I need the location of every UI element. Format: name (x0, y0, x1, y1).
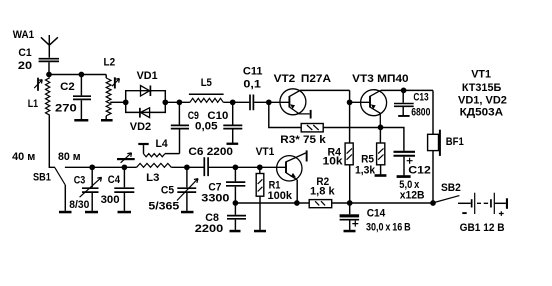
resistor R5 (377, 127, 385, 174)
ground C13 (398, 115, 409, 117)
svg-text:VT1: VT1 (256, 146, 275, 158)
inductor L2 (106, 75, 111, 120)
resistor R3 (269, 102, 323, 132)
wire mid rail left (65, 166, 137, 168)
inductor L3 (137, 163, 172, 167)
wire L5 to C11 (223, 101, 249, 103)
svg-text:300: 300 (101, 194, 120, 206)
node C13 top (401, 88, 407, 94)
svg-text:VD2: VD2 (130, 121, 151, 133)
node VT3 base junction (347, 99, 353, 105)
capacitor C4 (114, 167, 134, 211)
capacitor C14 (340, 203, 360, 230)
wire C11 to VT2 base (254, 101, 289, 103)
node BF1 bottom (430, 200, 436, 206)
battery plus sign (499, 211, 504, 216)
svg-text:C3: C3 (74, 174, 86, 186)
ground C12 (397, 175, 411, 178)
svg-text:30,0 х 16 В: 30,0 х 16 В (366, 221, 411, 233)
wire C9 to L4 (179, 129, 181, 153)
wire bridge to L5 (165, 101, 190, 103)
node C5 top (184, 164, 190, 170)
svg-text:100k: 100k (268, 190, 293, 202)
ground C8 (230, 230, 241, 233)
svg-text:C12: C12 (408, 165, 431, 177)
svg-text:R3* 75 k: R3* 75 k (280, 134, 326, 146)
wire VT3 collector rail (381, 89, 433, 91)
transistor VT1 (277, 153, 306, 203)
svg-text:C6 2200: C6 2200 (188, 146, 233, 158)
wire VT3 base (350, 101, 370, 103)
ground C10 (227, 143, 239, 145)
capacitor C7 (226, 167, 245, 203)
svg-text:C2: C2 (60, 81, 75, 93)
svg-text:L3: L3 (146, 172, 159, 184)
inductor L5 (189, 94, 224, 102)
wire top rail L1-C2-L2 (49, 74, 106, 76)
svg-text:10k: 10k (323, 156, 344, 168)
svg-text:C11: C11 (243, 66, 263, 78)
capacitor C9 (171, 102, 189, 128)
svg-text:L5: L5 (201, 77, 212, 89)
svg-text:WA1: WA1 (13, 29, 34, 41)
capacitor C3 (80, 167, 102, 211)
capacitor C8 (227, 203, 246, 230)
ground C14 (344, 230, 356, 233)
ground SB1 (59, 211, 72, 214)
capacitor C2 (73, 75, 91, 120)
svg-text:GB1 12 В: GB1 12 В (460, 222, 505, 234)
inductor L4 (143, 145, 179, 157)
ground VT1 collector (306, 150, 308, 161)
node C14 top (347, 200, 353, 206)
wire C1 to node (48, 62, 50, 74)
wire L3 to C6 (171, 166, 203, 168)
svg-text:L4: L4 (156, 138, 169, 150)
capacitor C1 (39, 59, 59, 62)
svg-text:VD1, VD2: VD1, VD2 (458, 94, 507, 106)
svg-text:3300: 3300 (201, 192, 229, 204)
node C8 top (233, 200, 239, 206)
svg-text:C1: C1 (18, 47, 31, 59)
node C4 top (122, 164, 128, 170)
svg-text:VT3 МП40: VT3 МП40 (352, 73, 408, 85)
svg-text:1,3k: 1,3k (355, 165, 376, 177)
antenna WA1 (41, 35, 58, 58)
svg-text:6800: 6800 (411, 107, 430, 119)
wire L1 to SB1 (49, 115, 55, 167)
node A2 (79, 72, 85, 78)
resistor R4 (345, 143, 353, 203)
ground C4 (118, 211, 132, 214)
capacitor C12 (394, 152, 416, 176)
node bridge left (123, 99, 129, 105)
svg-text:0,05: 0,05 (195, 121, 218, 133)
svg-text:2200: 2200 (195, 223, 223, 235)
svg-text:0,1: 0,1 (243, 79, 261, 91)
switch SB1 (55, 168, 66, 211)
svg-text:R5: R5 (361, 153, 374, 165)
node C9 top (177, 99, 183, 105)
svg-text:C4: C4 (108, 174, 121, 186)
transistor VT2 (280, 89, 310, 115)
battery minus sign (462, 212, 466, 214)
svg-text:КД503А: КД503А (460, 107, 504, 119)
svg-text:BF1: BF1 (446, 136, 464, 148)
svg-text:SB1: SB1 (33, 172, 51, 184)
svg-text:270: 270 (55, 103, 77, 115)
node C3 top (89, 164, 95, 170)
svg-text:VT2 П27А: VT2 П27А (274, 73, 331, 85)
node C10 top (230, 99, 236, 105)
ground VT2 emitter (310, 110, 312, 119)
capacitor C13 (394, 90, 414, 115)
node A1 (46, 72, 52, 78)
svg-text:C5: C5 (161, 184, 174, 196)
capacitor C6 (204, 157, 208, 176)
ground L4 (138, 143, 148, 145)
resistor R1 (256, 167, 264, 230)
battery GB1 (471, 193, 508, 214)
svg-text:C13: C13 (413, 91, 428, 103)
svg-text:80 м: 80 м (58, 151, 81, 163)
capacitor C5 (177, 167, 198, 211)
svg-text:КТ315Б: КТ315Б (462, 82, 501, 94)
diode VD2 (140, 108, 150, 118)
svg-text:х12В: х12В (400, 189, 425, 201)
capacitor C10 (223, 102, 242, 143)
capacitor C11 (250, 95, 253, 111)
wire VT2 collector rail (300, 89, 350, 91)
node VT1 emitter (294, 200, 300, 206)
svg-text:SB2: SB2 (441, 182, 461, 194)
ground C2 (74, 119, 88, 122)
ground C3 (85, 211, 98, 214)
L2 adjust arrow (112, 77, 119, 88)
svg-text:L2: L2 (104, 57, 116, 69)
L1 adjust arrow (34, 78, 42, 91)
bottom rail (235, 202, 433, 204)
switch SB2 (434, 196, 471, 204)
svg-text:VT1: VT1 (471, 69, 491, 81)
inductor L1 (46, 78, 50, 116)
headphone BF1 (428, 90, 441, 203)
ground L2 (101, 119, 113, 122)
ground C5 (181, 211, 194, 214)
wire R3 to VT3 emitter node and C12 (323, 128, 404, 151)
svg-text:VD1: VD1 (137, 70, 158, 82)
svg-text:20: 20 (18, 60, 32, 72)
svg-text:L1: L1 (28, 98, 38, 110)
ground R1 (254, 230, 266, 233)
node VT2 base (266, 99, 272, 105)
diode VD1 (141, 86, 151, 97)
ground R5 (375, 174, 387, 177)
node VT3 emitter (378, 125, 384, 131)
svg-text:8/30: 8/30 (69, 199, 89, 211)
transistor VT3 (361, 90, 387, 127)
node R1 top (257, 164, 263, 170)
diode bridge frame (126, 91, 166, 113)
wire C6 to VT1 base (209, 166, 286, 168)
trimmer arrow near L3 (117, 153, 135, 163)
svg-text:1,8 k: 1,8 k (310, 186, 336, 198)
node C7 top (233, 164, 239, 170)
wire L2 tap to diode bridge (110, 101, 126, 103)
resistor R2 (309, 200, 332, 208)
node bridge right (162, 99, 168, 105)
svg-text:40 м: 40 м (12, 151, 35, 163)
svg-text:C14: C14 (367, 207, 386, 219)
wire R4 vertical (349, 90, 351, 143)
svg-text:5/365: 5/365 (148, 201, 179, 213)
